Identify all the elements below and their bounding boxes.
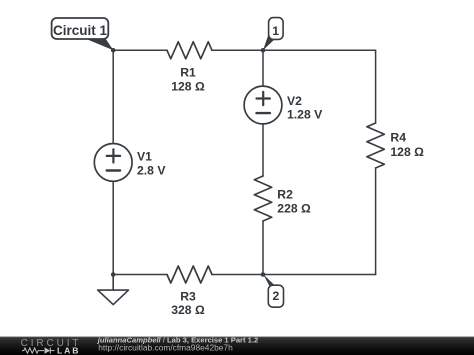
footer bar [0, 337, 474, 355]
svg-text:1: 1 [272, 24, 279, 38]
wire top-right [212, 49, 376, 51]
svg-text:228 Ω: 228 Ω [277, 202, 311, 216]
net label Circuit 1 [52, 18, 114, 50]
resistor R3 [167, 266, 212, 283]
svg-text:LAB: LAB [57, 346, 80, 355]
resistor R2 [254, 176, 271, 221]
wire left-top [112, 50, 114, 143]
node junction bottom-left [111, 272, 116, 277]
logo diode arrow [45, 347, 51, 353]
wire right-top [375, 50, 377, 123]
svg-text:R4: R4 [390, 131, 406, 145]
resistor R1 [167, 42, 212, 59]
node junction 1 [261, 48, 266, 53]
node junction 2 [261, 272, 266, 277]
voltage source V2 [244, 86, 282, 124]
logo resistor and diode [22, 348, 55, 354]
svg-text:128 Ω: 128 Ω [390, 145, 424, 159]
node 1 label [263, 18, 283, 51]
svg-text:128 Ω: 128 Ω [171, 79, 205, 93]
wire middle-mid [262, 124, 264, 176]
wire middle-top [262, 50, 264, 86]
svg-text:Circuit 1: Circuit 1 [53, 23, 108, 38]
svg-text:http://circuitlab.com/cfma98e4: http://circuitlab.com/cfma98e42be7h [98, 342, 233, 352]
wire right-bottom [375, 168, 377, 275]
wire left-bottom [112, 181, 114, 274]
svg-text:2.8 V: 2.8 V [137, 163, 166, 177]
svg-text:2: 2 [273, 289, 280, 303]
wire bottom-left [113, 274, 167, 276]
wire top-left [113, 49, 167, 51]
resistor R4 [367, 123, 384, 168]
ground [98, 275, 129, 305]
svg-text:R2: R2 [277, 187, 293, 201]
wire middle-bottom [262, 221, 264, 275]
wire bottom-right [212, 274, 376, 276]
node junction top-left [111, 48, 116, 53]
svg-text:R1: R1 [180, 66, 196, 80]
svg-text:V1: V1 [137, 150, 152, 164]
svg-text:V2: V2 [287, 94, 302, 108]
node 2 label [263, 274, 283, 307]
svg-text:328 Ω: 328 Ω [171, 303, 205, 317]
svg-text:R3: R3 [180, 289, 196, 303]
svg-text:1.28 V: 1.28 V [287, 108, 323, 122]
voltage source V1 [94, 144, 132, 182]
